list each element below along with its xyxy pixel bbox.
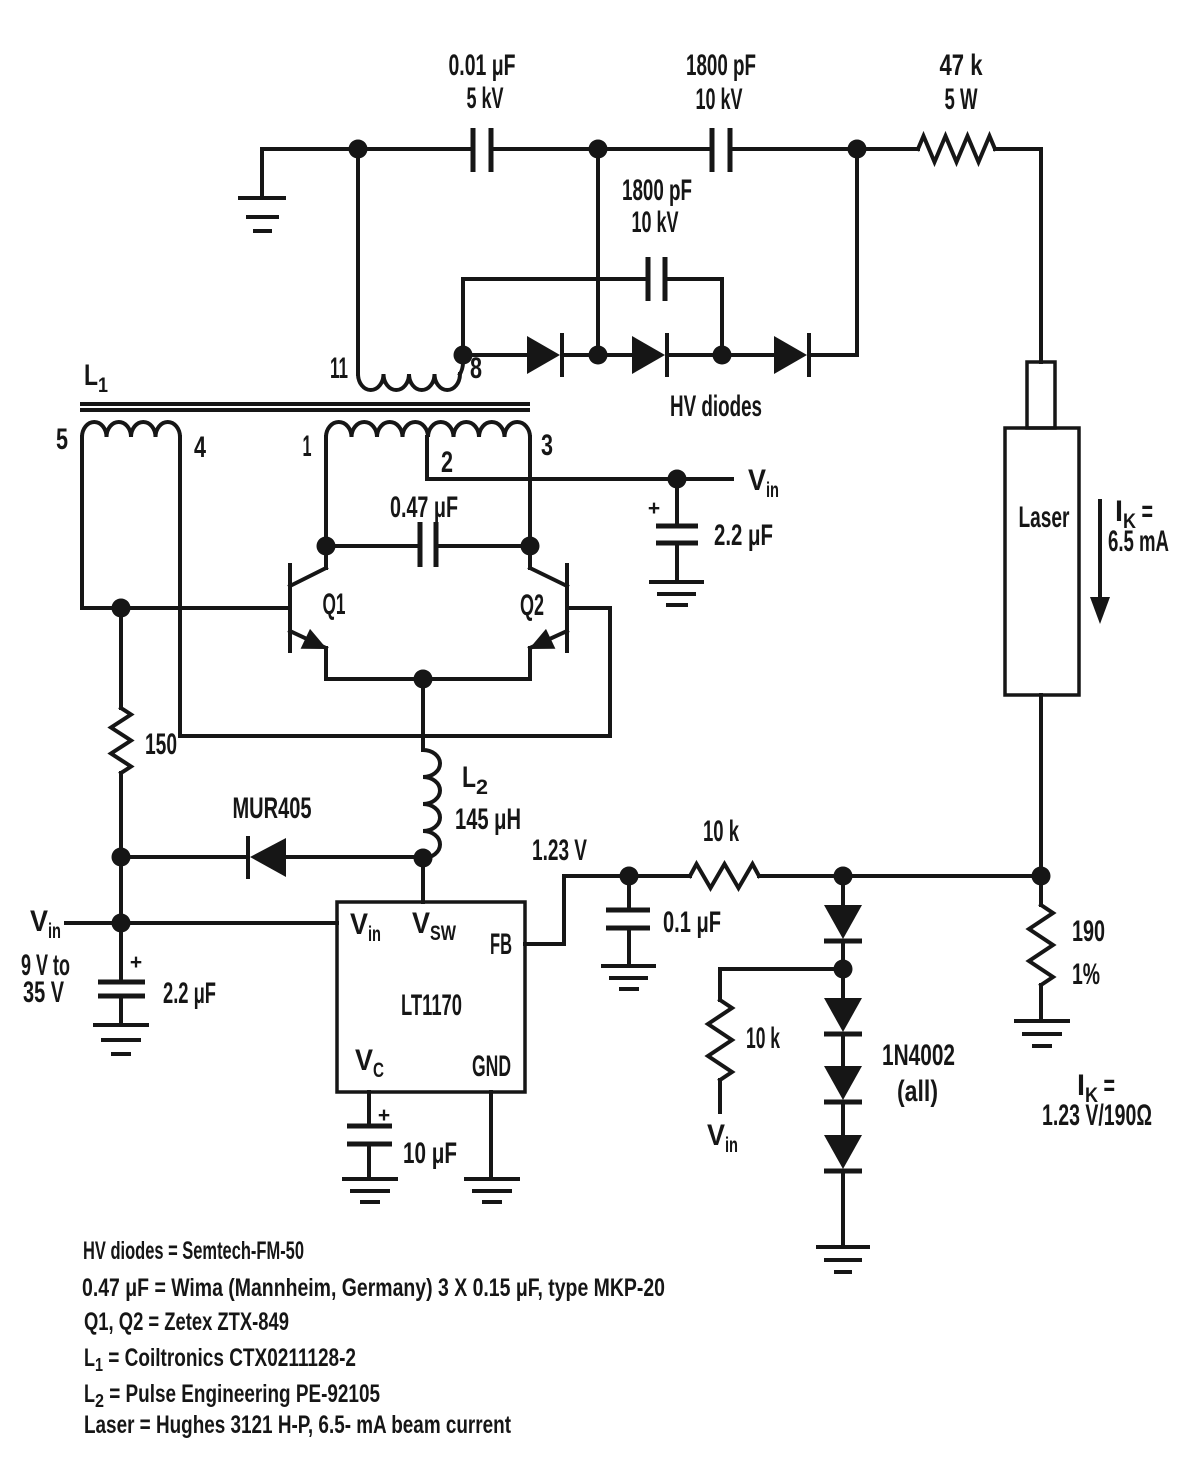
ground (10uF) xyxy=(344,1179,396,1202)
svg-text:5: 5 xyxy=(56,423,68,456)
svg-text:2.2 μF: 2.2 μF xyxy=(714,519,773,552)
node Vsw node xyxy=(414,849,433,868)
wire Vin input rail xyxy=(66,921,337,925)
laser tube xyxy=(1005,362,1079,695)
node Vin tap bypass xyxy=(668,470,687,489)
ground (Vin tap bypass) xyxy=(651,582,702,605)
svg-text:1: 1 xyxy=(303,430,312,463)
resistor 10k (pull-up to Vin) xyxy=(708,1000,780,1112)
wire D2 to D3 xyxy=(667,353,774,357)
ground (190) xyxy=(1016,1021,1068,1046)
node top rail / winding pin 11 xyxy=(349,140,368,159)
wire diode string node to laser cathode node xyxy=(843,874,1041,878)
wire emitter bus xyxy=(326,677,530,681)
svg-text:1800 pF: 1800 pF xyxy=(622,174,692,207)
svg-text:2: 2 xyxy=(441,446,453,479)
wire D1 to D2 xyxy=(562,353,632,357)
wire top rail left segment xyxy=(262,147,473,151)
svg-text:MUR405: MUR405 xyxy=(233,792,312,825)
wire between 0.01uF and 1800pF xyxy=(491,147,712,151)
node winding pin 8 xyxy=(454,346,473,365)
diode 1N4002 D6 xyxy=(824,1034,862,1102)
svg-text:150: 150 xyxy=(145,728,177,761)
svg-text:Q2: Q2 xyxy=(520,589,544,622)
ground (top left, HV return) xyxy=(240,149,284,231)
svg-text:+: + xyxy=(378,1104,390,1127)
resistor 10k (feedback) xyxy=(690,815,759,888)
transformer L1 secondary winding 1-3 xyxy=(303,422,554,463)
wire FB to feedback node xyxy=(525,876,629,944)
svg-text:1.23 V: 1.23 V xyxy=(532,834,587,867)
svg-text:2.2 μF: 2.2 μF xyxy=(163,977,216,1010)
notes text block xyxy=(82,1237,665,1439)
svg-text:0.1 μF: 0.1 μF xyxy=(663,906,721,939)
wire D3 to 47k node xyxy=(809,149,857,355)
wire pin 3 to Q2 collector xyxy=(528,437,532,546)
svg-text:FB: FB xyxy=(490,928,512,961)
wire laser cathode xyxy=(1039,695,1043,876)
svg-text:190: 190 xyxy=(1072,915,1105,948)
diode 1N4002 D7 xyxy=(824,1102,862,1247)
diode 1N4002 D4 xyxy=(824,905,862,969)
svg-text:GND: GND xyxy=(472,1050,511,1083)
wire Q2 base return xyxy=(608,608,612,736)
svg-text:10 k: 10 k xyxy=(703,815,739,848)
current arrow IK 6.5mA xyxy=(1090,495,1169,624)
svg-text:10 k: 10 k xyxy=(746,1022,780,1055)
wire pin 2 tap to Vin xyxy=(427,437,732,479)
svg-text:Q1, Q2 = Zetex ZTX-849: Q1, Q2 = Zetex ZTX-849 xyxy=(84,1308,289,1336)
ground (LT1170 GND) xyxy=(466,1179,518,1202)
node top rail / HV diode output xyxy=(848,140,867,159)
wire pin 11 riser xyxy=(356,149,360,374)
svg-text:0.47 μF: 0.47 μF xyxy=(390,491,458,524)
ground (diode string) xyxy=(818,1247,868,1272)
resistor 190 1% xyxy=(1029,876,1105,1021)
svg-text:LT1170: LT1170 xyxy=(401,989,462,1022)
wire 150 node to Vin node xyxy=(119,857,123,923)
svg-text:35 V: 35 V xyxy=(23,976,64,1009)
wire winding pin 4 return xyxy=(180,437,610,736)
capacitor 0.01uF 5kV xyxy=(449,49,516,172)
wire between 1800pF and 47k xyxy=(730,147,918,151)
inductor L2 145uH xyxy=(423,750,521,858)
transformer L1 primary winding 5-4 xyxy=(56,422,206,464)
svg-text:4: 4 xyxy=(194,431,206,464)
svg-text:145 μH: 145 μH xyxy=(455,803,521,836)
svg-text:6.5 mA: 6.5 mA xyxy=(1108,525,1169,558)
svg-text:1%: 1% xyxy=(1072,958,1100,991)
wire feedback node to 10k xyxy=(629,874,690,878)
svg-text:(all): (all) xyxy=(897,1075,938,1108)
node 0.47uF left / Q1 collector xyxy=(317,537,336,556)
wire emitter to L2 xyxy=(421,679,425,750)
node 0.47uF right / Q2 collector xyxy=(521,537,540,556)
svg-text:Laser: Laser xyxy=(1019,501,1070,534)
svg-text:0.01 μF: 0.01 μF xyxy=(449,49,516,82)
capacitor 2.2uF (Vin tap bypass) xyxy=(648,479,773,582)
wire rectifier column xyxy=(596,149,600,355)
ground (input cap) xyxy=(95,1025,147,1054)
svg-text:HV diodes = Semtech-FM-50: HV diodes = Semtech-FM-50 xyxy=(83,1237,304,1265)
capacitor 0.47uF xyxy=(326,491,530,567)
svg-text:5 kV: 5 kV xyxy=(467,82,504,115)
wire doubler capacitor to D2-D3 junction xyxy=(665,279,722,355)
svg-text:1800 pF: 1800 pF xyxy=(686,49,756,82)
resistor 47k 5W xyxy=(918,49,995,162)
capacitor 0.1uF xyxy=(606,876,721,966)
label IK = 1.23V/190 xyxy=(1042,1069,1152,1132)
svg-text:10 kV: 10 kV xyxy=(696,83,743,116)
wire Vsw node to LT1170 xyxy=(421,858,425,902)
wire GND pin to ground xyxy=(489,1092,493,1179)
diode MUR405 xyxy=(121,792,423,877)
svg-text:1N4002: 1N4002 xyxy=(882,1039,955,1072)
svg-text:Q1: Q1 xyxy=(323,588,346,621)
wire pin 8 to D1 xyxy=(463,353,527,357)
svg-text:47 k: 47 k xyxy=(940,49,983,82)
svg-text:L1 = Coiltronics CTX0211128-2: L1 = Coiltronics CTX0211128-2 xyxy=(84,1344,356,1375)
svg-text:Laser = Hughes 3121 H-P, 6.5-: Laser = Hughes 3121 H-P, 6.5- mA beam cu… xyxy=(84,1411,512,1439)
node D1-D2 junction xyxy=(589,346,608,365)
wire 10k to diode string node xyxy=(759,874,843,878)
svg-text:L2 = Pulse Engineering PE-9210: L2 = Pulse Engineering PE-92105 xyxy=(84,1380,380,1411)
svg-text:11: 11 xyxy=(330,352,348,385)
svg-text:+: + xyxy=(648,497,660,520)
svg-text:10 kV: 10 kV xyxy=(632,206,679,239)
svg-text:0.47 μF = Wima (Mannheim, Germ: 0.47 μF = Wima (Mannheim, Germany) 3 X 0… xyxy=(82,1274,665,1302)
node diode string top xyxy=(834,867,853,886)
transformer L1 winding 11-8 xyxy=(330,352,482,390)
capacitor 1800pF 10kV (top) xyxy=(686,49,756,172)
svg-text:+: + xyxy=(130,951,142,974)
transistor Q2 xyxy=(520,546,610,679)
resistor 150 xyxy=(111,608,177,857)
diode 1N4002 D5 xyxy=(824,941,862,1034)
wire pin 5 to Q1 base rail xyxy=(82,437,290,608)
capacitor 1800pF 10kV (doubler) xyxy=(622,174,692,301)
wire pin 1 to Q1 collector xyxy=(324,437,328,546)
svg-text:3: 3 xyxy=(541,429,553,462)
label 1N4002 (all) xyxy=(882,1039,955,1108)
node diode tap xyxy=(834,960,853,979)
node emitter junction xyxy=(414,670,433,689)
label Vin 9V to 35V xyxy=(21,905,70,1009)
transistor Q1 xyxy=(290,546,346,679)
ground (0.1uF) xyxy=(603,966,654,989)
wire pin 8 to doubler capacitor xyxy=(463,279,648,355)
transformer L1 core xyxy=(82,404,528,410)
node D2-D3 junction xyxy=(713,346,732,365)
svg-text:HV diodes: HV diodes xyxy=(670,390,762,423)
node 150 / MUR405 xyxy=(112,848,131,867)
svg-text:1.23 V/190Ω: 1.23 V/190Ω xyxy=(1042,1099,1152,1132)
node feedback xyxy=(620,867,639,886)
node Vin input xyxy=(112,914,131,933)
svg-text:5 W: 5 W xyxy=(945,83,978,116)
capacitor 2.2uF (input, polarized) xyxy=(98,923,216,1025)
HV diode D2 xyxy=(632,335,667,375)
IC LT1170 xyxy=(337,902,525,1092)
HV diode D3 xyxy=(774,335,809,375)
wire diode string top xyxy=(841,876,845,905)
capacitor 10uF (VC, polarized) xyxy=(347,1104,457,1179)
wire tap to 10k pull-up xyxy=(720,969,843,1000)
node laser cathode xyxy=(1032,867,1051,886)
svg-text:10 μF: 10 μF xyxy=(403,1137,457,1170)
wire VC to 10uF xyxy=(367,1092,371,1126)
HV diode D1 xyxy=(527,335,562,375)
node base rail / 150 ohm xyxy=(112,599,131,618)
node top rail / rectifier column xyxy=(589,140,608,159)
wire 47k to laser anode xyxy=(995,149,1041,362)
